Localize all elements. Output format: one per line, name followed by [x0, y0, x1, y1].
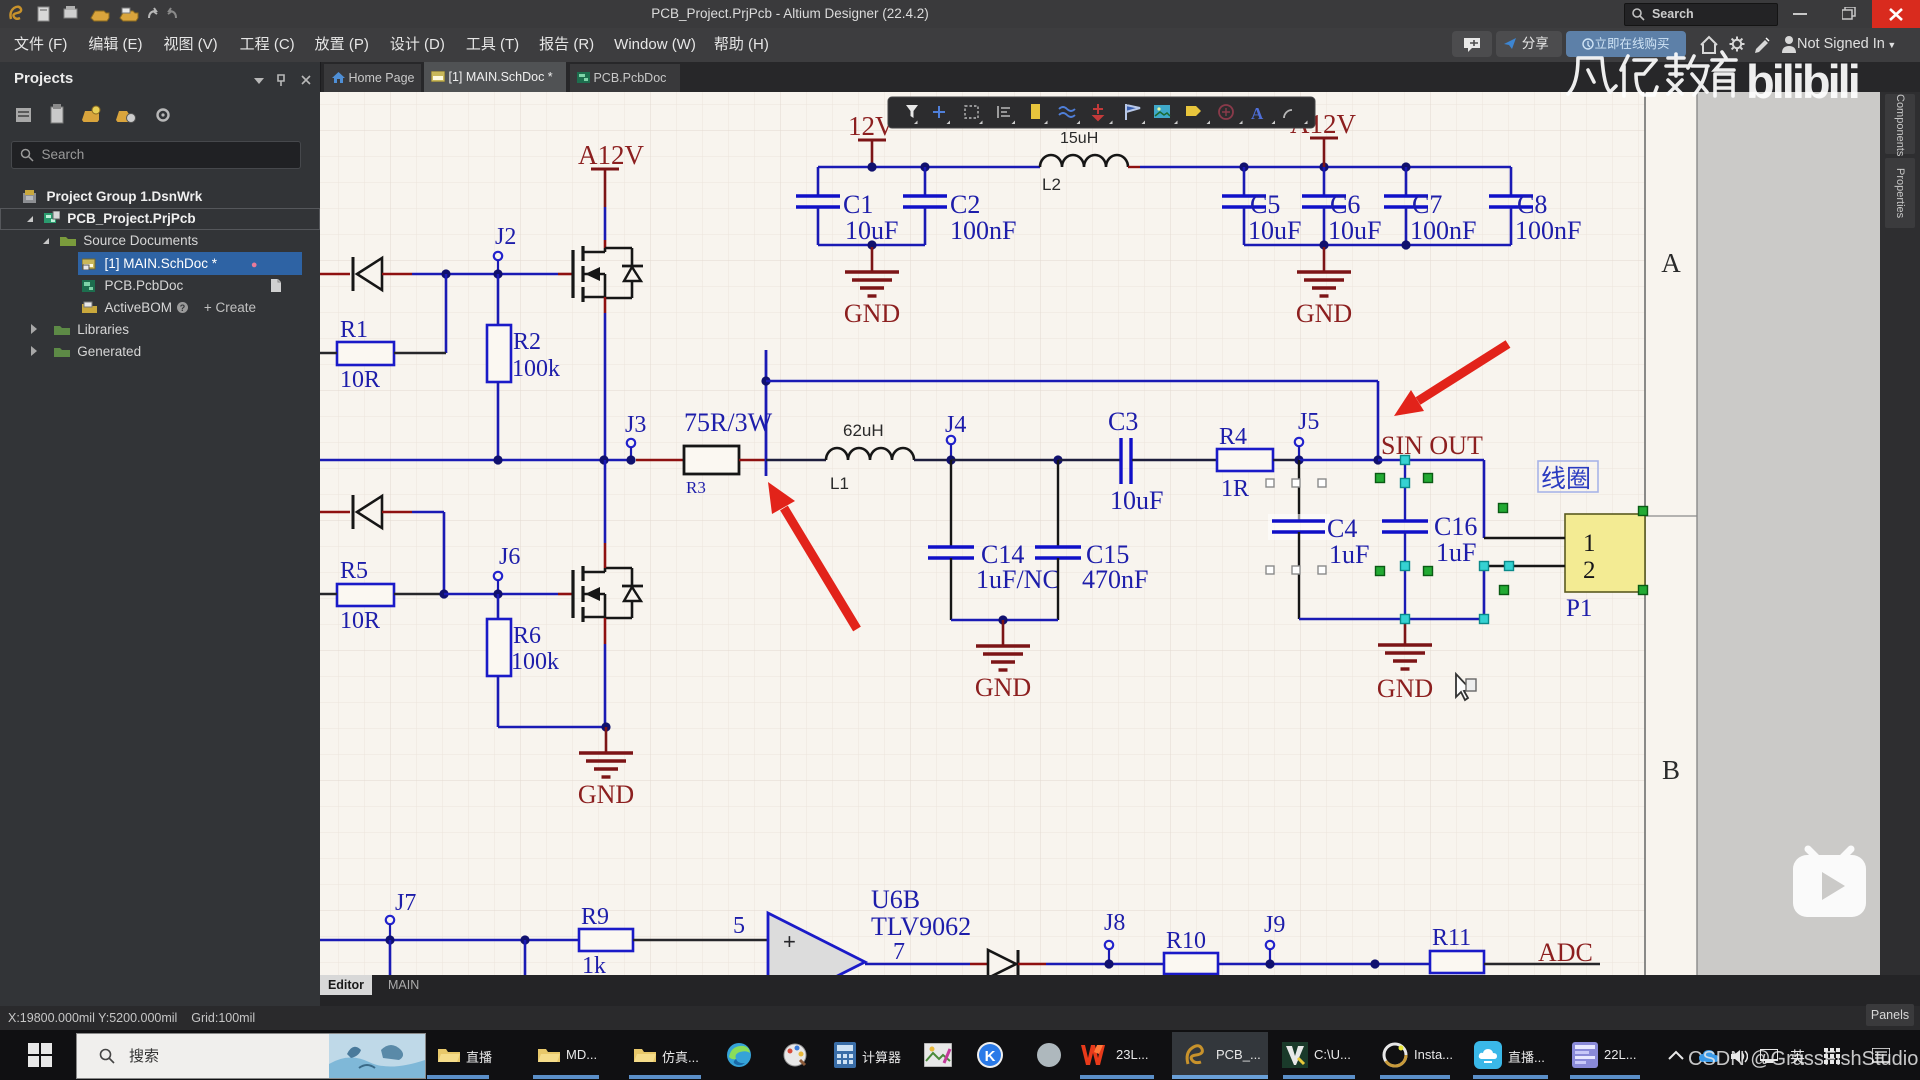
- svg-text:470nF: 470nF: [1082, 565, 1148, 594]
- svg-text:R2: R2: [513, 329, 541, 355]
- transistor Q1 (NMOS with body diode): [573, 246, 643, 302]
- ground GND top-left: [871, 247, 874, 272]
- wire C14-C15 bottom: [951, 619, 1058, 622]
- svg-text:C2: C2: [950, 190, 980, 219]
- svg-text:B: B: [1662, 755, 1680, 785]
- svg-text:1: 1: [1583, 530, 1596, 557]
- svg-text:?: ?: [180, 303, 186, 313]
- node mid: [1370, 959, 1379, 968]
- wire D1 to J2 node: [382, 273, 412, 276]
- K: [976, 1041, 1004, 1069]
- cloud 直播: [1474, 1041, 1502, 1069]
- wire R9 to opamp: [633, 939, 768, 941]
- sheet border: [1644, 92, 1646, 975]
- resistor R5: [337, 584, 394, 606]
- wire stub vertical (highlighted): [765, 350, 768, 476]
- svg-text:P1: P1: [1566, 595, 1592, 622]
- annotation red arrow 2: [768, 482, 857, 629]
- svg-text:2: 2: [1583, 557, 1596, 584]
- svg-text:C7: C7: [1412, 190, 1442, 219]
- capacitor C1: [817, 167, 820, 196]
- svg-text:C5: C5: [1250, 190, 1280, 219]
- svg-text:U6B: U6B: [871, 885, 920, 914]
- wire left to D1: [320, 273, 350, 276]
- svg-text:7: 7: [893, 939, 905, 965]
- svg-text:R10: R10: [1166, 928, 1206, 954]
- wire GND bottom run: [1299, 618, 1484, 621]
- svg-text:R9: R9: [581, 904, 609, 930]
- titlebar search: [1624, 3, 1778, 26]
- capacitor C15: [1035, 545, 1081, 548]
- menu right buttons: [1452, 31, 1492, 57]
- wire main mid rail: [320, 459, 631, 462]
- node stub/top rail: [761, 376, 770, 385]
- project tree: [0, 186, 320, 363]
- wire A12V to Q1 drain: [604, 207, 607, 240]
- node R2 bottom: [493, 455, 502, 464]
- selection handles gray (C4): [1266, 479, 1274, 487]
- wire top feedback rail: [766, 380, 1378, 383]
- tray: [1660, 1030, 1920, 1080]
- svg-text:1R: 1R: [1221, 476, 1249, 502]
- wire opamp out: [865, 963, 970, 966]
- wire Q1 source down: [604, 297, 607, 313]
- ground GND right: [1404, 619, 1407, 645]
- wire gate Q1: [558, 273, 572, 276]
- svg-text:100nF: 100nF: [1515, 216, 1581, 245]
- svg-text:100k: 100k: [511, 649, 559, 675]
- svg-text:C6: C6: [1330, 190, 1360, 219]
- svg-text:A: A: [1661, 248, 1681, 278]
- capacitor C6: [1323, 167, 1326, 196]
- svg-text:J9: J9: [1264, 912, 1285, 938]
- svg-text:C8: C8: [1517, 190, 1547, 219]
- wire 12V rail left group: [818, 166, 1040, 169]
- wire stub to L1: [766, 459, 826, 462]
- capacitor C16: [1404, 460, 1406, 521]
- wire to J6/gate: [444, 593, 558, 596]
- calculator: [834, 1042, 856, 1068]
- svg-text:J5: J5: [1298, 409, 1319, 435]
- wire J4 to C15 node: [951, 459, 1058, 462]
- mouse cursor: [1456, 674, 1476, 700]
- svg-text:bilibili: bilibili: [1746, 55, 1858, 106]
- diode D3: [988, 950, 1016, 978]
- svg-text:线圈: 线圈: [1541, 465, 1591, 493]
- op-amp U6B TLV9062: [768, 913, 865, 1011]
- svg-text:SIN OUT: SIN OUT: [1381, 431, 1483, 460]
- capacitor C8: [1510, 167, 1513, 196]
- svg-text:J4: J4: [945, 412, 966, 438]
- svg-text:10R: 10R: [340, 367, 380, 393]
- svg-text:10uF: 10uF: [1328, 216, 1381, 245]
- wire C15 node down: [1057, 460, 1059, 547]
- svg-text:C16: C16: [1434, 512, 1477, 541]
- svg-text:R1: R1: [340, 317, 368, 343]
- svg-text:K: K: [985, 1048, 996, 1065]
- wire down to P1 pin1: [1483, 460, 1486, 538]
- edge: [726, 1042, 752, 1068]
- svg-text:J8: J8: [1104, 910, 1125, 936]
- wire R11 to ADC: [1484, 963, 1600, 965]
- svg-text:1uF: 1uF: [1329, 540, 1369, 569]
- wire bottom rail: [320, 939, 579, 942]
- floating utility toolbar: [888, 97, 1315, 128]
- running app underlines: [427, 1075, 489, 1079]
- node Q1/Q2: [599, 455, 608, 464]
- wire R2 bottom: [497, 382, 500, 460]
- svg-text:R4: R4: [1219, 424, 1247, 450]
- capacitor C2: [924, 167, 927, 196]
- gray circle: [1036, 1042, 1062, 1068]
- bilibili play watermark: [1793, 849, 1866, 917]
- wire to J8: [1046, 963, 1164, 966]
- resistor R11: [1430, 951, 1484, 973]
- capacitor C3 (series): [1119, 438, 1122, 484]
- resistor R2: [497, 274, 500, 325]
- svg-text:J7: J7: [395, 890, 416, 916]
- WPS: [1080, 1042, 1110, 1068]
- wire C3 to R4: [1132, 459, 1217, 462]
- svg-text:L1: L1: [830, 474, 849, 493]
- svg-text:GND: GND: [975, 673, 1031, 702]
- svg-text:J2: J2: [495, 224, 516, 250]
- wire SIN node right: [1378, 459, 1484, 462]
- connector P1: [1565, 514, 1645, 592]
- svg-text:R11: R11: [1432, 925, 1471, 951]
- resistor R9: [579, 929, 633, 951]
- svg-text:1uF/NC: 1uF/NC: [976, 565, 1060, 594]
- annotation red arrow 1: [1394, 344, 1508, 416]
- svg-text:+: +: [783, 929, 796, 954]
- svg-text:15uH: 15uH: [1060, 130, 1098, 147]
- svg-text:5: 5: [733, 913, 745, 939]
- svg-text:GND: GND: [844, 299, 900, 328]
- ground GND mid: [1002, 620, 1005, 646]
- wire J7 stub down: [389, 940, 392, 975]
- wire to C3: [1058, 459, 1120, 462]
- selection handles cyan: [1401, 456, 1410, 465]
- svg-text:10R: 10R: [340, 608, 380, 634]
- svg-text:1k: 1k: [582, 953, 606, 975]
- svg-text:R5: R5: [340, 558, 368, 584]
- resistor R4: [1217, 449, 1273, 471]
- wire Q2 drain up: [604, 460, 607, 543]
- wire R10 to J9: [1218, 963, 1430, 966]
- svg-text:TLV9062: TLV9062: [871, 912, 971, 941]
- wire P1 pin2 down: [1483, 566, 1486, 619]
- diode D2: [353, 495, 382, 529]
- wire R3 right: [739, 459, 766, 462]
- paint: [782, 1042, 808, 1068]
- svg-text:J3: J3: [625, 412, 646, 438]
- selection handles green: [1376, 474, 1385, 483]
- svg-text:C3: C3: [1108, 407, 1138, 436]
- wire D2 to corner: [382, 511, 412, 514]
- wire L2 right: [1128, 166, 1140, 168]
- resistor R3: [684, 446, 739, 474]
- transistor Q2 (NMOS with body diode): [573, 566, 643, 622]
- wire R4 to J5: [1273, 459, 1299, 462]
- svg-text:62uH: 62uH: [843, 421, 884, 440]
- wire bottom right group: [1244, 244, 1511, 247]
- wire bottom left group: [818, 244, 925, 247]
- wire J3 to R3: [636, 459, 684, 462]
- inductor L2 15uH: [1040, 155, 1128, 167]
- wire Q2 source down: [604, 618, 607, 644]
- wire C14 to bottom: [950, 558, 952, 620]
- wire gate Q2: [558, 593, 572, 596]
- resistor R10: [1164, 953, 1218, 974]
- wire L1 to J4: [914, 459, 951, 462]
- diode D1: [353, 257, 382, 291]
- wire R1 to junction: [394, 352, 446, 354]
- svg-text:R6: R6: [513, 623, 541, 649]
- svg-text:L2: L2: [1042, 175, 1061, 194]
- capacitor C16: [1382, 519, 1428, 522]
- wire R1 left: [320, 352, 337, 354]
- capacitor C5: [1243, 167, 1246, 196]
- Altium active: [1172, 1032, 1268, 1078]
- wire P1 pin2: [1484, 565, 1565, 567]
- svg-text:GND: GND: [1296, 299, 1352, 328]
- ground GND top-right: [1323, 247, 1326, 272]
- capacitor C7: [1405, 167, 1408, 196]
- wire junction down to R1: [445, 274, 448, 353]
- Insta: [1382, 1042, 1408, 1068]
- wire P1 pin1: [1484, 537, 1565, 539]
- inductor L1 62uH: [826, 448, 914, 460]
- svg-text:A12V: A12V: [578, 140, 644, 170]
- label 线圈 (coil): [1538, 461, 1598, 492]
- wire R6 bottom loop: [497, 676, 500, 727]
- ground GND lower: [605, 727, 608, 753]
- resistor R6: [497, 594, 500, 619]
- node J2 junction: [493, 269, 502, 278]
- folder 直播: [438, 1046, 460, 1064]
- svg-text:75R/3W: 75R/3W: [684, 408, 773, 437]
- svg-text:100nF: 100nF: [950, 216, 1016, 245]
- resistor R1: [337, 342, 394, 365]
- svg-text:1uF: 1uF: [1436, 538, 1476, 567]
- wire J4 down to C14: [950, 460, 952, 547]
- node mid stub: [520, 935, 529, 944]
- svg-text:10uF: 10uF: [1110, 486, 1163, 515]
- node source/R6: [601, 722, 610, 731]
- svg-text:R3: R3: [686, 478, 706, 497]
- wire J5 to SIN node: [1299, 459, 1378, 462]
- svg-text:J6: J6: [499, 544, 520, 570]
- svg-text:C1: C1: [843, 190, 873, 219]
- V3: [1282, 1042, 1308, 1068]
- 22L: [1572, 1042, 1598, 1068]
- picture tool: [924, 1043, 952, 1067]
- capacitor C14: [928, 545, 974, 548]
- node D1/R1 junction: [441, 269, 450, 278]
- svg-text:100k: 100k: [512, 356, 560, 382]
- svg-text:100nF: 100nF: [1410, 216, 1476, 245]
- svg-text:GND: GND: [1377, 674, 1433, 703]
- svg-text:A: A: [1251, 104, 1264, 123]
- capacitor C4 (selected): [1298, 460, 1300, 521]
- svg-text:10uF: 10uF: [1248, 216, 1301, 245]
- svg-text:C4: C4: [1327, 514, 1357, 543]
- svg-text:GND: GND: [578, 780, 634, 809]
- node R5/D2: [439, 589, 448, 598]
- svg-text:ADC: ADC: [1538, 938, 1593, 967]
